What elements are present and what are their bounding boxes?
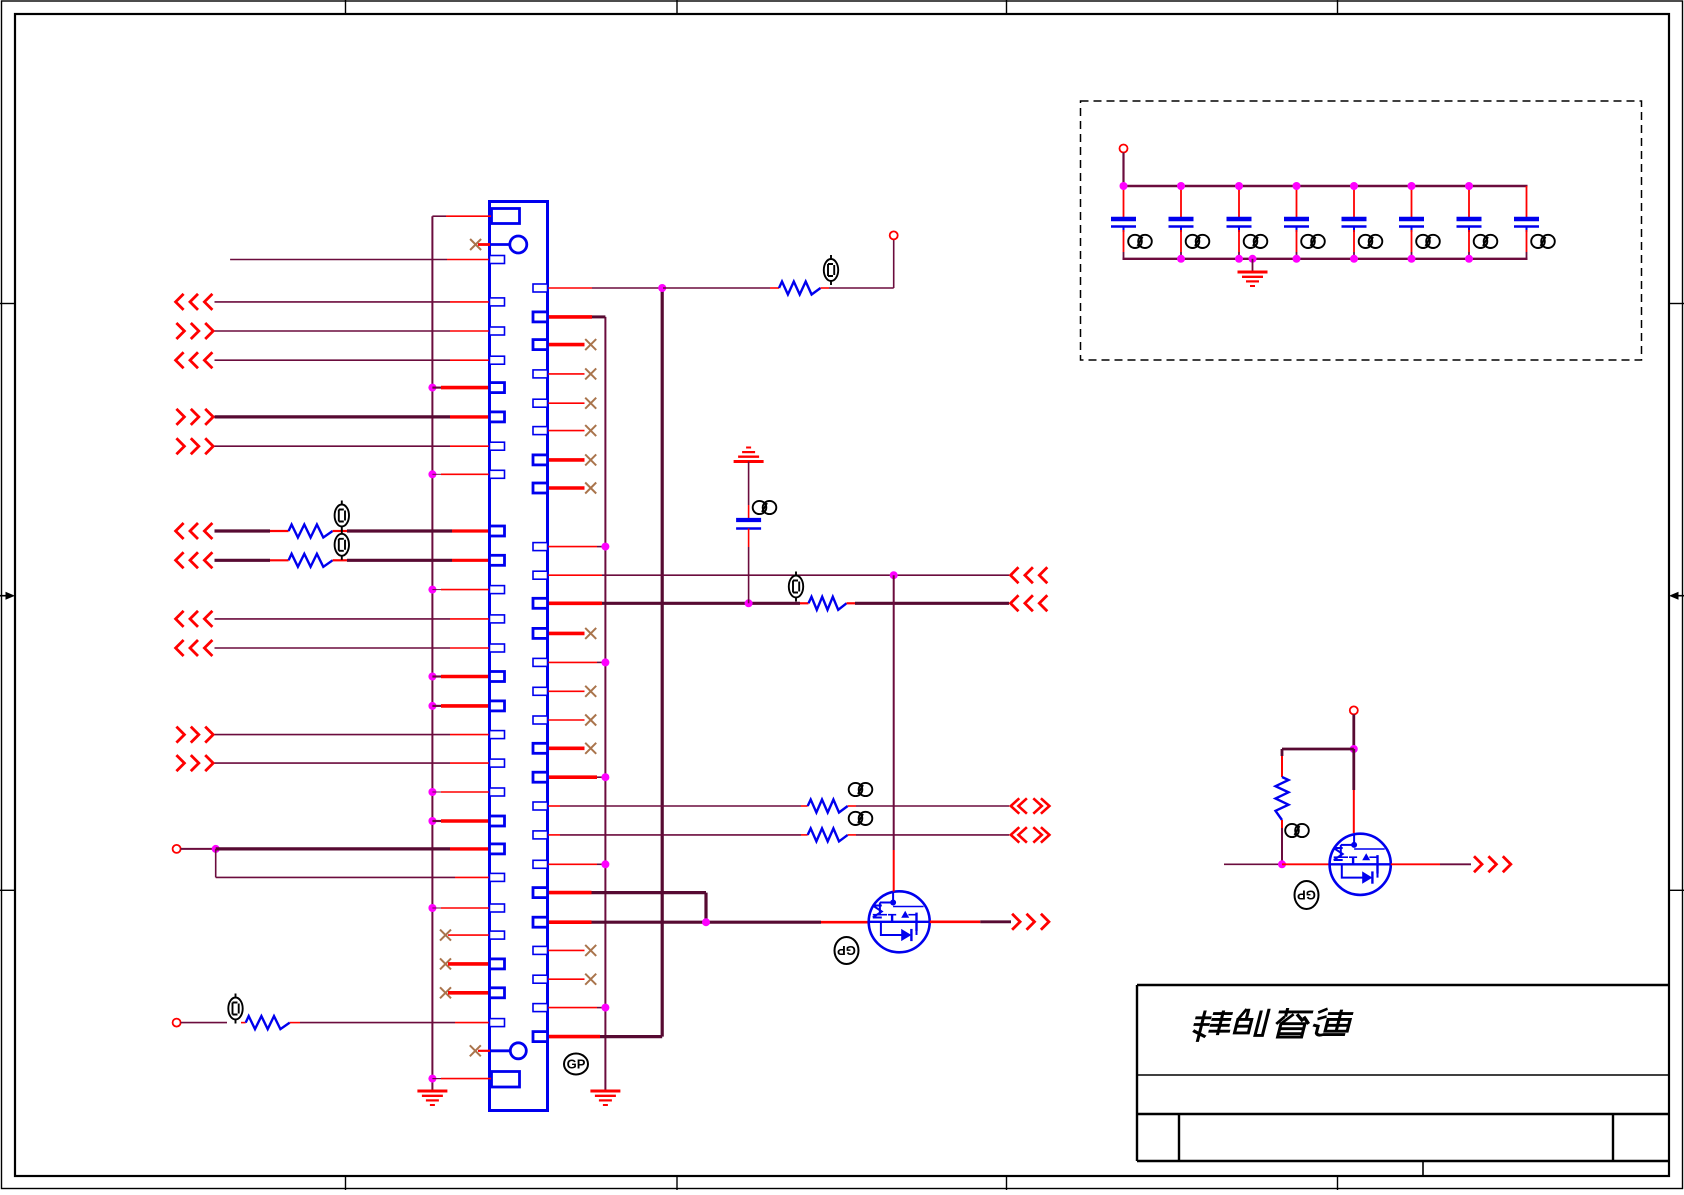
wire bbox=[548, 601, 603, 605]
reference label R4 bbox=[335, 530, 349, 560]
wire bbox=[1353, 252, 1355, 259]
capacitor C33 bbox=[1227, 219, 1252, 232]
wire bbox=[1353, 230, 1355, 252]
wire bbox=[748, 505, 750, 518]
wire bbox=[748, 529, 750, 548]
port (output) bbox=[176, 755, 213, 771]
wire bbox=[855, 602, 1009, 605]
junction bbox=[428, 904, 436, 912]
border tick (left) bbox=[0, 303, 15, 305]
port (input) bbox=[176, 611, 213, 627]
value label G/P (C35) bbox=[1359, 235, 1383, 248]
wire bbox=[1224, 863, 1282, 865]
pin (left) bbox=[490, 442, 505, 450]
pin (left) bbox=[490, 759, 505, 767]
port (output) bbox=[176, 727, 213, 743]
wire bbox=[856, 834, 1009, 836]
capacitor C32 bbox=[1169, 219, 1194, 232]
junction bbox=[1177, 255, 1185, 263]
capacitor C34 bbox=[1284, 219, 1309, 232]
junction bbox=[601, 773, 609, 781]
junction bbox=[1350, 182, 1358, 190]
capacitor C31 bbox=[1111, 219, 1136, 232]
no-connect bbox=[470, 239, 481, 250]
port (input) bbox=[176, 294, 213, 310]
wire bbox=[592, 891, 707, 894]
wire bbox=[597, 661, 605, 663]
pin (left) bbox=[490, 383, 505, 393]
wire (thick vertical bus) bbox=[661, 288, 664, 1037]
wire bbox=[215, 849, 217, 878]
wire bbox=[452, 559, 490, 562]
wire bbox=[1468, 186, 1470, 218]
wire bbox=[441, 791, 490, 793]
wire bbox=[1296, 230, 1298, 252]
wire bbox=[450, 762, 490, 764]
wire bbox=[450, 734, 490, 736]
pin (left) bbox=[490, 788, 505, 796]
wire bbox=[548, 315, 593, 319]
pin (left) bbox=[490, 615, 505, 623]
pin (right) bbox=[533, 802, 548, 810]
no-connect bbox=[585, 483, 596, 494]
wire bbox=[1281, 828, 1283, 864]
junction bbox=[890, 571, 898, 579]
no-connect bbox=[585, 339, 596, 350]
power terminal P3 bbox=[173, 1019, 181, 1027]
pin (right) bbox=[533, 370, 548, 378]
wire bbox=[1180, 230, 1182, 252]
resistor R8 bbox=[1276, 777, 1289, 820]
wire bbox=[829, 287, 894, 289]
wire bbox=[980, 920, 1011, 923]
junction bbox=[1278, 860, 1286, 868]
port (input) bbox=[176, 352, 213, 368]
wire bbox=[215, 415, 451, 418]
ground (right bus) bbox=[590, 1091, 620, 1105]
wire bbox=[548, 402, 585, 404]
reference label R2 bbox=[789, 572, 803, 602]
port (input) bbox=[176, 640, 213, 656]
junction bbox=[428, 817, 436, 825]
wire bbox=[600, 1035, 662, 1038]
wire bbox=[215, 330, 451, 332]
reference label R6 bbox=[849, 783, 873, 796]
company logotype text bbox=[1191, 1009, 1352, 1040]
pin (right) bbox=[533, 598, 548, 608]
pin (right) bbox=[533, 772, 548, 782]
wire bbox=[450, 618, 490, 620]
no-connect bbox=[440, 958, 451, 969]
border tick (bottom) bbox=[1337, 1176, 1339, 1190]
transistor Q5 bbox=[869, 891, 930, 952]
wire bbox=[1123, 230, 1125, 252]
wire bbox=[432, 791, 441, 793]
wire bbox=[548, 546, 598, 548]
junction bbox=[1465, 182, 1473, 190]
wire bbox=[663, 287, 770, 289]
resistor R3 bbox=[289, 525, 333, 538]
wire bbox=[592, 287, 661, 289]
wire bbox=[597, 863, 605, 865]
junction bbox=[1235, 255, 1243, 263]
ground (inverted, C15) bbox=[734, 448, 764, 462]
wire bbox=[930, 920, 981, 923]
capacitor C37 bbox=[1457, 219, 1482, 232]
wire bbox=[1391, 863, 1440, 865]
border tick (bottom) bbox=[1006, 1176, 1008, 1190]
pin (left) bbox=[490, 526, 505, 536]
pin (left) bbox=[490, 731, 505, 739]
port (output) bbox=[1012, 914, 1049, 930]
junction bbox=[428, 470, 436, 478]
title block frame bbox=[1137, 985, 1669, 1176]
junction bbox=[1120, 182, 1128, 190]
connector J1 mounting circle (top) bbox=[491, 236, 527, 253]
wire bbox=[300, 1022, 455, 1024]
no-connect bbox=[585, 454, 596, 465]
wire bbox=[548, 891, 592, 895]
wire bbox=[450, 359, 490, 361]
wire bbox=[1122, 153, 1124, 187]
wire bbox=[446, 215, 491, 217]
pin (left) bbox=[490, 412, 505, 422]
wire bbox=[548, 486, 585, 490]
junction bbox=[1408, 255, 1416, 263]
junction bbox=[1249, 255, 1257, 263]
wire bbox=[441, 907, 490, 909]
reference label R1 bbox=[824, 255, 838, 285]
wire bbox=[1526, 186, 1528, 218]
no-connect bbox=[585, 398, 596, 409]
wire bbox=[432, 1078, 441, 1080]
wire bbox=[748, 547, 750, 603]
wire bbox=[215, 618, 451, 620]
junction bbox=[1177, 182, 1185, 190]
wire bbox=[560, 834, 801, 836]
port (output) bbox=[176, 409, 213, 425]
junction bbox=[1235, 182, 1243, 190]
wire bbox=[1180, 252, 1182, 259]
junction bbox=[1350, 255, 1358, 263]
pin (left) bbox=[490, 988, 505, 998]
wire bbox=[441, 704, 490, 708]
pin (left) bbox=[490, 959, 505, 969]
connector J1 body bbox=[490, 202, 548, 1111]
junction bbox=[1465, 255, 1473, 263]
wire bbox=[215, 529, 271, 532]
no-connect bbox=[585, 368, 596, 379]
junction bbox=[601, 1004, 609, 1012]
junction bbox=[428, 702, 436, 710]
wire bbox=[548, 1007, 598, 1009]
wire bbox=[441, 1078, 491, 1080]
wire bbox=[215, 734, 451, 736]
wire bbox=[1123, 186, 1125, 218]
border center arrow (left) bbox=[0, 592, 15, 600]
connector J1 key slot (top) bbox=[492, 209, 520, 224]
pin (left) bbox=[490, 298, 505, 306]
wire bbox=[448, 934, 490, 936]
pin (right) bbox=[533, 284, 548, 292]
no-connect bbox=[440, 987, 451, 998]
junction bbox=[428, 1075, 436, 1083]
wire bbox=[450, 330, 490, 332]
value label G/P (C32) bbox=[1186, 235, 1210, 248]
pin (left) bbox=[490, 816, 505, 826]
wire bbox=[592, 315, 605, 318]
port (output) bbox=[1474, 856, 1511, 872]
wire bbox=[1296, 186, 1298, 218]
svg-text:GP: GP bbox=[1297, 887, 1316, 902]
reference label R7 bbox=[849, 812, 873, 825]
wire bbox=[216, 847, 450, 850]
connector J1 mounting circle (bottom) bbox=[491, 1043, 526, 1059]
pin (left) bbox=[490, 873, 505, 881]
wire bbox=[215, 762, 451, 764]
wire bbox=[801, 805, 808, 807]
wire bbox=[1281, 749, 1284, 756]
border tick (bottom) bbox=[345, 1176, 347, 1190]
pin (right) bbox=[533, 340, 548, 350]
capacitor C36 bbox=[1399, 219, 1424, 232]
wire bbox=[548, 746, 585, 750]
reference label R3 bbox=[335, 501, 349, 531]
junction bbox=[428, 384, 436, 392]
pin (left) bbox=[490, 256, 505, 264]
wire bbox=[1411, 252, 1413, 259]
ground (capacitor bank) bbox=[1238, 272, 1268, 286]
wire bbox=[270, 559, 289, 561]
wire bbox=[450, 647, 490, 649]
wire bbox=[893, 239, 895, 288]
pin (left) bbox=[490, 586, 505, 594]
wire bbox=[602, 574, 1009, 576]
wire bbox=[432, 675, 441, 677]
wire bbox=[1238, 230, 1240, 252]
wire bbox=[597, 1007, 605, 1009]
wire bbox=[450, 847, 490, 850]
wire bbox=[230, 259, 447, 261]
wire bbox=[432, 387, 441, 389]
pin (right) bbox=[533, 946, 548, 954]
pin (right) bbox=[533, 831, 548, 839]
wire bbox=[347, 559, 452, 562]
wire bbox=[1281, 820, 1283, 828]
wire bbox=[432, 705, 441, 707]
no-connect bbox=[585, 686, 596, 697]
wire bbox=[450, 301, 490, 303]
wire bbox=[856, 805, 1009, 807]
wire bbox=[478, 243, 490, 246]
no-connect bbox=[585, 945, 596, 956]
border tick (top) bbox=[676, 0, 678, 14]
junction bbox=[1408, 182, 1416, 190]
wire bbox=[455, 876, 490, 878]
wire bbox=[1281, 756, 1283, 777]
junction bbox=[1350, 745, 1358, 753]
port (input) bbox=[176, 552, 213, 568]
wire bbox=[215, 445, 451, 447]
wire bbox=[215, 359, 451, 361]
wire bbox=[432, 473, 441, 475]
wire bbox=[455, 1022, 490, 1024]
wire bbox=[548, 1035, 601, 1039]
value label G/P (C34) bbox=[1301, 235, 1325, 248]
wire bbox=[548, 287, 593, 289]
dashed enclosure box bbox=[1081, 101, 1642, 360]
pin (right) bbox=[533, 312, 548, 322]
wire bbox=[548, 805, 561, 807]
port (output) bbox=[176, 323, 213, 339]
reference label Q5 (GP) bbox=[835, 937, 859, 964]
wire bbox=[432, 820, 441, 822]
border tick (right) bbox=[1669, 303, 1684, 305]
wire bbox=[1180, 186, 1182, 218]
pin (right) bbox=[533, 628, 548, 638]
capacitor C38 bbox=[1514, 219, 1539, 232]
wire bbox=[215, 647, 451, 649]
pin (right) bbox=[533, 399, 548, 407]
resistor R4 bbox=[289, 554, 333, 567]
wire bbox=[821, 287, 830, 289]
wire bbox=[432, 907, 441, 909]
wire bbox=[548, 574, 603, 576]
wire bbox=[597, 776, 605, 778]
wire bbox=[1238, 186, 1240, 218]
pin (right) bbox=[533, 571, 548, 579]
pin (left) bbox=[490, 327, 505, 335]
pin (right) bbox=[533, 860, 548, 868]
wire bbox=[548, 690, 585, 692]
wire bbox=[1252, 259, 1254, 271]
wire bbox=[548, 863, 598, 865]
wire bbox=[448, 962, 490, 966]
resistor R1 bbox=[779, 282, 821, 295]
wire bbox=[216, 876, 455, 878]
pin (right) bbox=[533, 743, 548, 753]
pin (left) bbox=[490, 701, 505, 711]
pin (right) bbox=[533, 483, 548, 493]
pin (right) bbox=[533, 1032, 548, 1042]
junction bbox=[702, 918, 710, 926]
resistor R2 bbox=[809, 597, 847, 610]
pin (right) bbox=[533, 975, 548, 983]
border tick (right) bbox=[1669, 889, 1684, 891]
reference label R8 (G/P) bbox=[1285, 824, 1309, 837]
wire bbox=[548, 343, 585, 347]
wire bbox=[452, 529, 490, 532]
wire bbox=[893, 850, 895, 892]
wire bbox=[270, 530, 289, 532]
wire bbox=[441, 589, 490, 591]
ground (left bus) bbox=[417, 1091, 447, 1105]
wire bbox=[770, 287, 779, 289]
wire bbox=[893, 575, 895, 850]
wire bbox=[432, 215, 446, 217]
border tick (top) bbox=[1006, 0, 1008, 14]
wire bbox=[1411, 186, 1413, 218]
junction bbox=[212, 845, 220, 853]
no-connect bbox=[585, 425, 596, 436]
border tick (top) bbox=[1337, 0, 1339, 14]
wire (top bus) bbox=[1124, 185, 1528, 187]
border tick (bottom) bbox=[676, 1176, 678, 1190]
wire bbox=[333, 559, 347, 561]
pin (right) bbox=[533, 543, 548, 551]
wire bbox=[215, 559, 271, 562]
border center arrow (right) bbox=[1669, 592, 1684, 600]
pin (left) bbox=[490, 356, 505, 364]
wire bbox=[548, 920, 592, 924]
pin (left) bbox=[490, 1019, 505, 1027]
pin (left) bbox=[490, 931, 505, 939]
pin (right) bbox=[533, 427, 548, 435]
wire bbox=[441, 675, 490, 679]
wire bbox=[450, 415, 490, 418]
wire bbox=[848, 834, 856, 836]
junction bbox=[601, 860, 609, 868]
wire bbox=[548, 834, 561, 836]
wire (vertical bus right of J1) bbox=[604, 317, 606, 1090]
no-connect bbox=[440, 930, 451, 941]
wire bbox=[347, 529, 452, 532]
pin (right) bbox=[533, 687, 548, 695]
pin (right) bbox=[533, 455, 548, 465]
junction bbox=[601, 658, 609, 666]
junction bbox=[745, 599, 753, 607]
wire bbox=[548, 719, 585, 721]
port (input) bbox=[176, 523, 213, 539]
wire bbox=[448, 991, 490, 995]
wire bbox=[800, 602, 809, 604]
wire bbox=[1468, 230, 1470, 252]
resistor R5 bbox=[246, 1016, 290, 1029]
wire bbox=[1352, 749, 1355, 790]
border tick (top) bbox=[345, 0, 347, 14]
reference label J1 (GP) bbox=[564, 1054, 588, 1075]
wire bbox=[181, 1022, 227, 1024]
junction bbox=[658, 284, 666, 292]
wire (bottom bus) bbox=[1123, 258, 1528, 260]
junction bbox=[601, 543, 609, 551]
wire bbox=[1440, 863, 1471, 865]
wire bbox=[432, 589, 441, 591]
port (bidirectional) bbox=[1011, 798, 1027, 813]
wire bbox=[801, 834, 808, 836]
wire bbox=[597, 546, 605, 548]
wire bbox=[1282, 748, 1354, 751]
svg-text:GP: GP bbox=[567, 1057, 586, 1072]
pin (left) bbox=[490, 555, 505, 565]
wire bbox=[1468, 252, 1470, 259]
wire bbox=[1411, 230, 1413, 252]
wire bbox=[548, 373, 585, 375]
value label G/P (C38) bbox=[1531, 235, 1555, 248]
reference label R5 bbox=[228, 994, 242, 1024]
wire bbox=[1296, 252, 1298, 259]
pin (left) bbox=[490, 644, 505, 652]
reference label Q6 (GP) bbox=[1295, 881, 1319, 909]
resistor R7 bbox=[808, 828, 848, 841]
wire bbox=[441, 386, 490, 390]
wire bbox=[1353, 186, 1355, 218]
wire bbox=[548, 430, 585, 432]
pin (right) bbox=[533, 917, 548, 927]
wire bbox=[181, 848, 216, 850]
value label G/P (C31) bbox=[1128, 235, 1152, 248]
pin (left) bbox=[490, 904, 505, 912]
